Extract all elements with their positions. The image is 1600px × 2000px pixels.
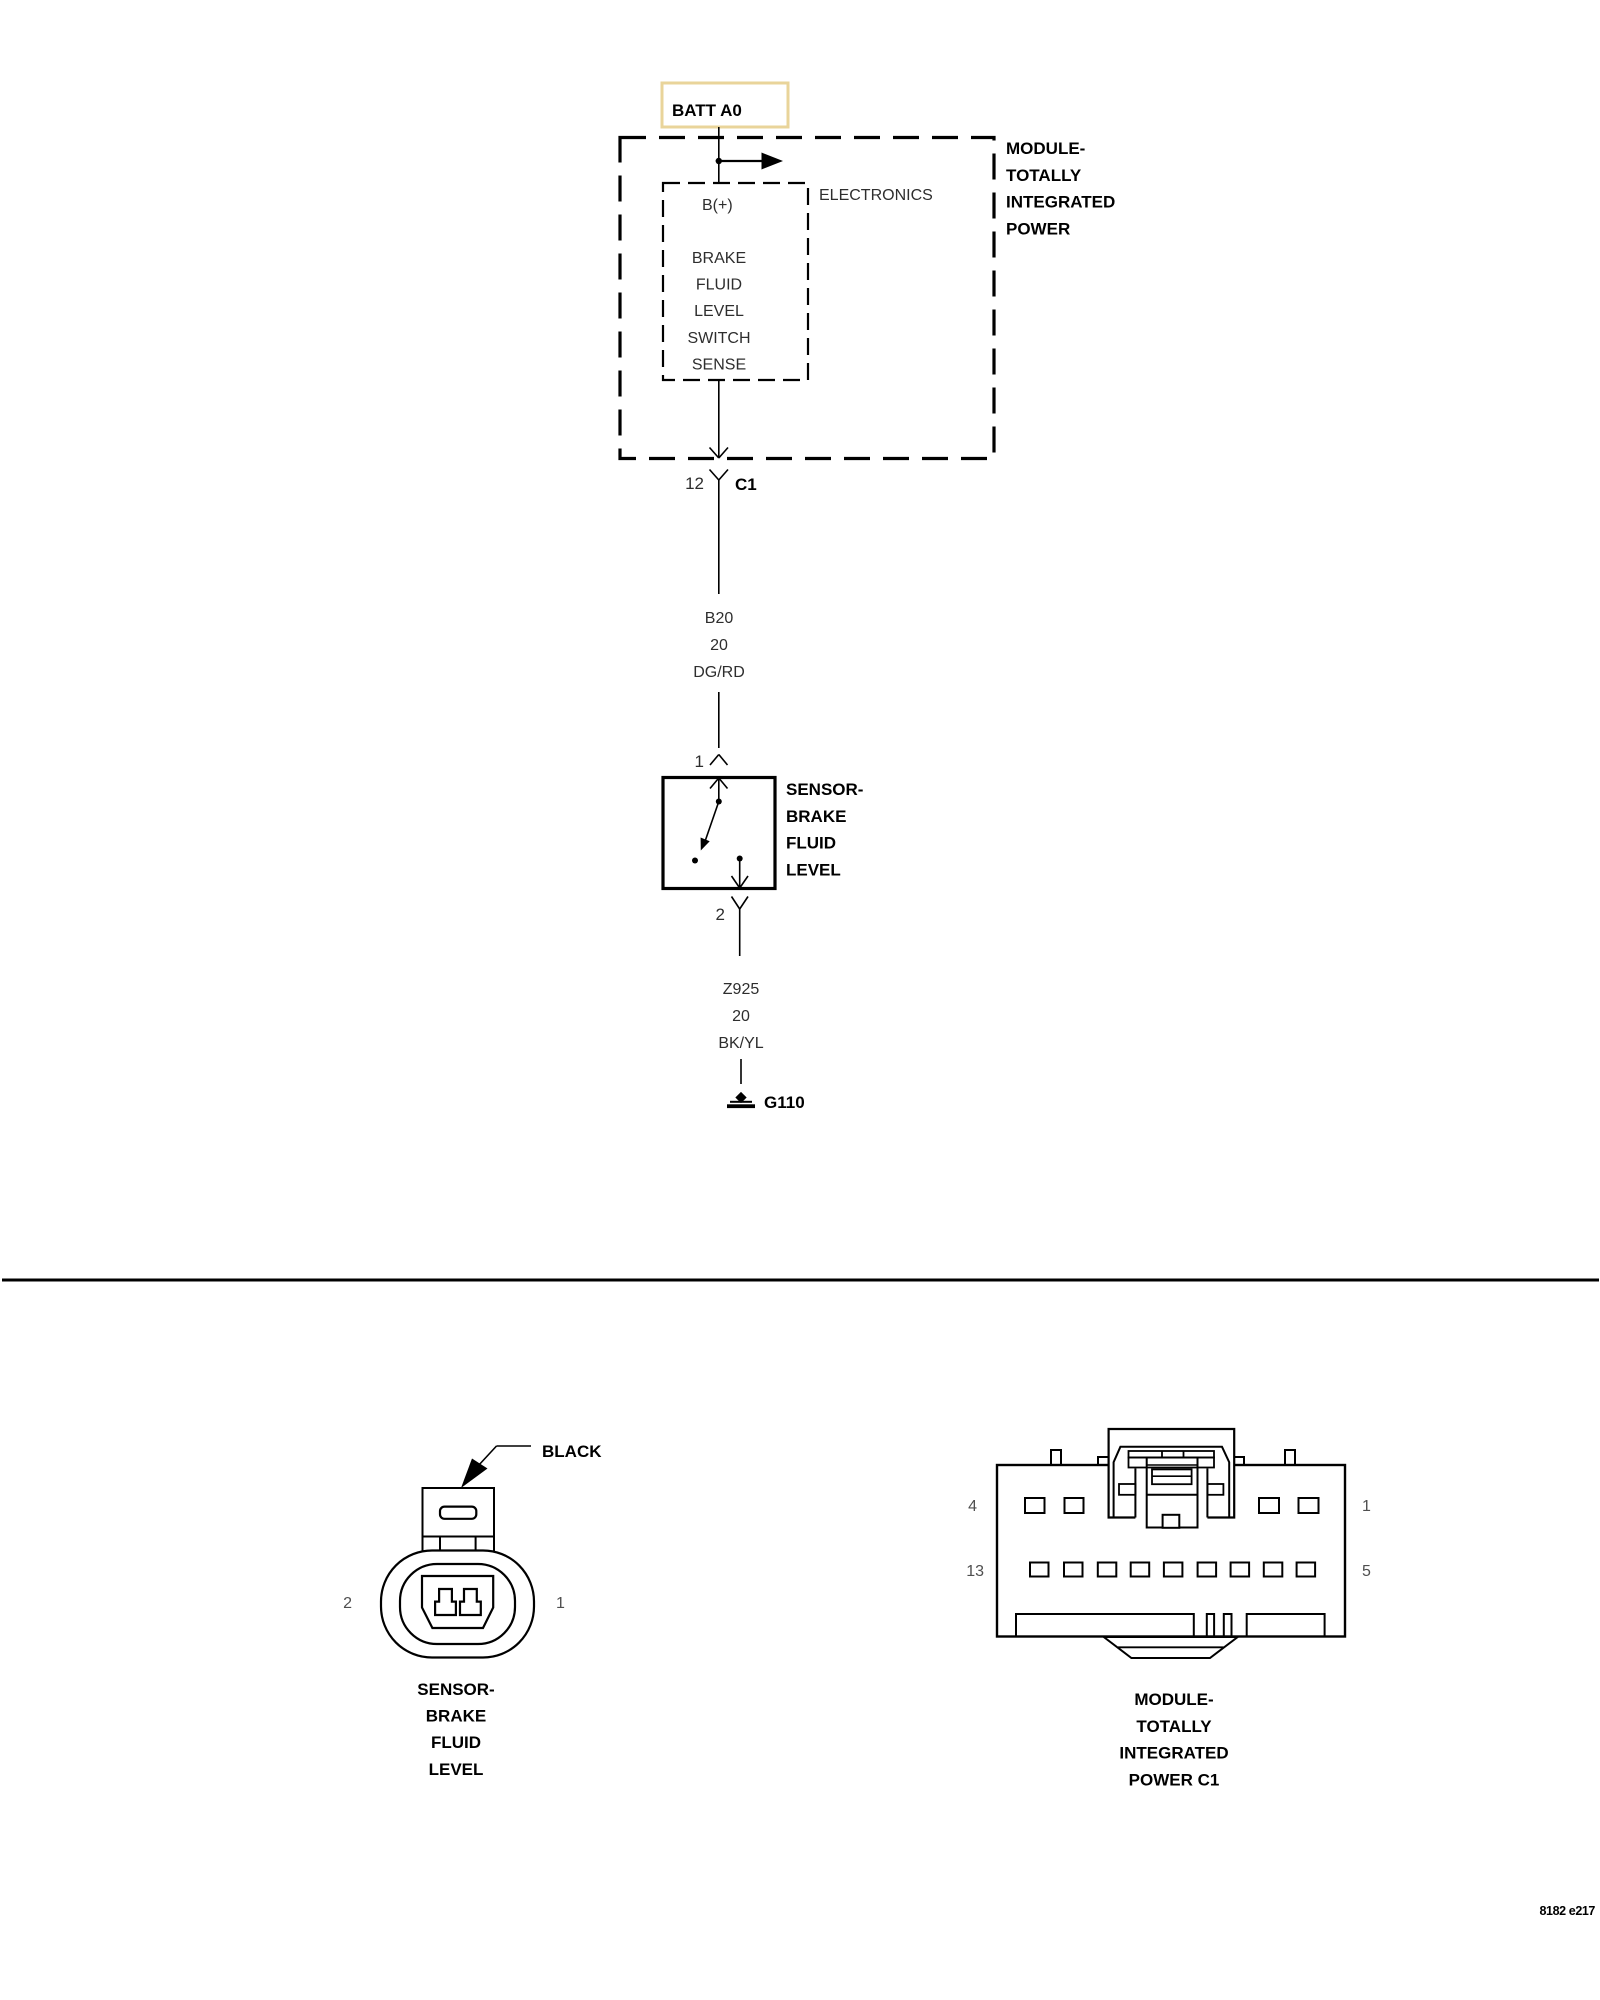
svg-text:20: 20 — [710, 637, 728, 654]
svg-text:2: 2 — [716, 905, 725, 924]
svg-text:BLACK: BLACK — [542, 1442, 602, 1461]
svg-text:BATT A0: BATT A0 — [672, 101, 742, 120]
svg-text:INTEGRATED: INTEGRATED — [1119, 1744, 1228, 1763]
svg-text:2: 2 — [343, 1595, 352, 1612]
svg-text:BRAKE: BRAKE — [692, 250, 746, 267]
svg-text:TOTALLY: TOTALLY — [1136, 1717, 1212, 1736]
svg-text:5: 5 — [1362, 1563, 1371, 1580]
svg-text:INTEGRATED: INTEGRATED — [1006, 193, 1115, 212]
svg-text:1: 1 — [695, 752, 704, 771]
svg-text:13: 13 — [966, 1563, 984, 1580]
svg-text:20: 20 — [732, 1008, 750, 1025]
svg-text:ELECTRONICS: ELECTRONICS — [819, 187, 933, 204]
svg-text:1: 1 — [1362, 1498, 1371, 1515]
svg-text:C1: C1 — [735, 475, 757, 494]
svg-text:LEVEL: LEVEL — [694, 303, 744, 320]
svg-text:POWER: POWER — [1006, 219, 1070, 238]
svg-text:G110: G110 — [764, 1093, 805, 1112]
svg-text:SWITCH: SWITCH — [687, 330, 750, 347]
svg-text:8182 e217: 8182 e217 — [1540, 1904, 1596, 1918]
svg-text:TOTALLY: TOTALLY — [1006, 166, 1082, 185]
svg-text:4: 4 — [968, 1498, 977, 1515]
svg-text:Z925: Z925 — [723, 981, 760, 998]
svg-text:SENSE: SENSE — [692, 356, 746, 373]
svg-text:LEVEL: LEVEL — [786, 860, 841, 879]
svg-text:B20: B20 — [705, 610, 734, 627]
svg-text:SENSOR-: SENSOR- — [786, 780, 863, 799]
svg-text:12: 12 — [685, 474, 704, 493]
svg-text:BRAKE: BRAKE — [786, 807, 846, 826]
svg-text:B(+): B(+) — [702, 197, 733, 214]
svg-text:SENSOR-: SENSOR- — [417, 1680, 494, 1699]
svg-text:DG/RD: DG/RD — [693, 664, 745, 681]
svg-text:POWER C1: POWER C1 — [1129, 1770, 1220, 1789]
svg-text:BK/YL: BK/YL — [718, 1035, 763, 1052]
svg-text:FLUID: FLUID — [786, 834, 836, 853]
svg-text:MODULE-: MODULE- — [1134, 1690, 1213, 1709]
svg-text:FLUID: FLUID — [431, 1733, 481, 1752]
svg-text:1: 1 — [556, 1595, 565, 1612]
svg-text:BRAKE: BRAKE — [426, 1707, 486, 1726]
svg-text:LEVEL: LEVEL — [429, 1760, 484, 1779]
svg-text:MODULE-: MODULE- — [1006, 139, 1085, 158]
svg-text:FLUID: FLUID — [696, 277, 742, 294]
